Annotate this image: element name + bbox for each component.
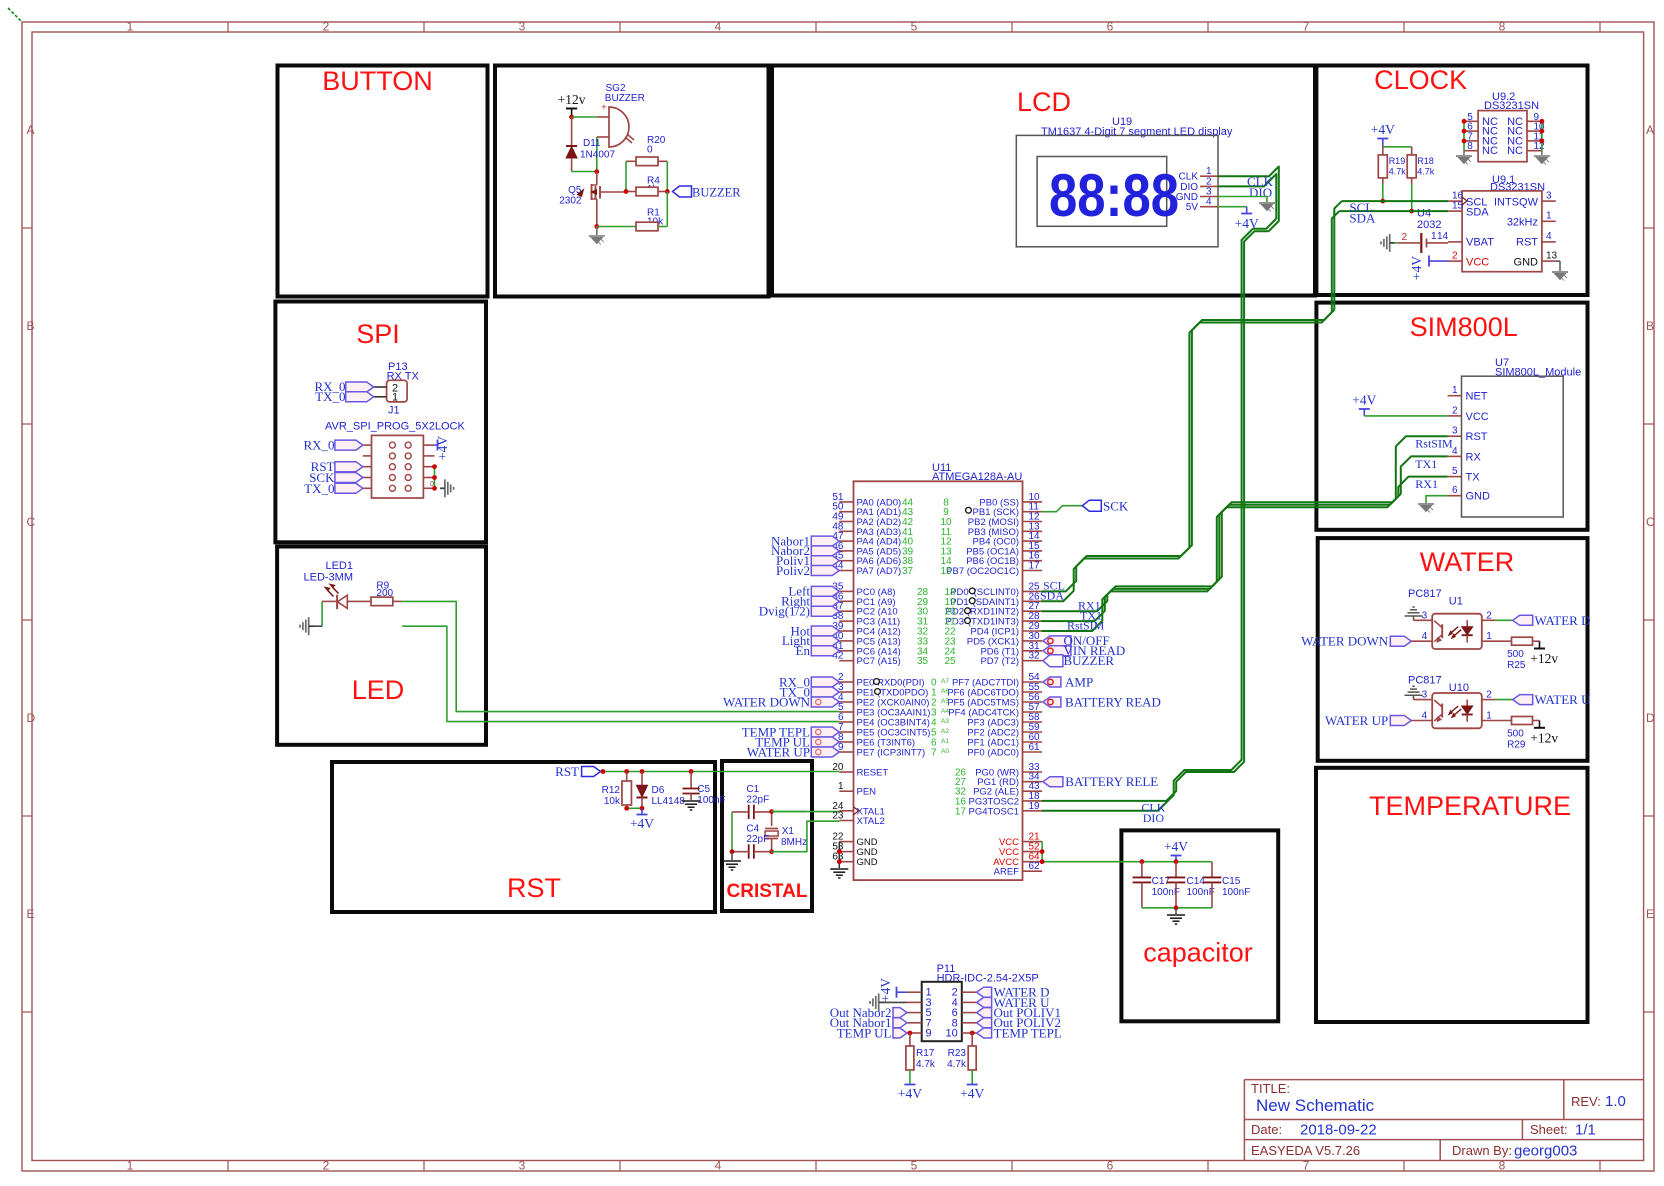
svg-text:19: 19 <box>1029 801 1041 812</box>
svg-text:2032: 2032 <box>1417 219 1441 231</box>
svg-text:500: 500 <box>1507 729 1524 740</box>
wire SDA in clock <box>1339 210 1448 212</box>
svg-text:PEN: PEN <box>857 787 877 798</box>
svg-text:georg003: georg003 <box>1514 1143 1577 1160</box>
svg-text:BUZZER: BUZZER <box>605 93 645 104</box>
optocoupler U10 PC817 <box>1432 693 1482 728</box>
svg-text:+4V: +4V <box>898 1086 922 1101</box>
net flag Left (MCU left) <box>811 586 839 596</box>
svg-text:+4V: +4V <box>435 436 450 460</box>
svg-text:SDA: SDA <box>1466 207 1489 219</box>
svg-text:LED: LED <box>352 675 405 705</box>
node source junction <box>594 224 599 229</box>
svg-text:WATER UP: WATER UP <box>1325 713 1388 728</box>
svg-text:E: E <box>27 907 35 921</box>
svg-text:0: 0 <box>430 481 434 488</box>
net flag SCK (J1) <box>335 473 363 483</box>
ground (MCU) <box>830 868 848 870</box>
svg-text:D6: D6 <box>652 785 665 796</box>
MCU pin 35 PC0 (A8) <box>839 590 853 592</box>
ground (P11) <box>869 1001 871 1004</box>
svg-text:CRISTAL: CRISTAL <box>727 881 808 902</box>
MCU pin 27 PD2 (RXD1INT2) <box>1023 610 1043 612</box>
svg-text:XTAL2: XTAL2 <box>857 816 885 827</box>
svg-text:U1: U1 <box>1449 596 1463 608</box>
MCU pin 24 XTAL1 <box>839 810 853 812</box>
net flag Right (MCU left) <box>811 596 839 606</box>
svg-text:R17: R17 <box>916 1048 935 1059</box>
MCU pin 55 PF6 (ADC6TDO) <box>1023 691 1043 693</box>
MCU pin 58 PF3 (ADC3) <box>1023 721 1043 723</box>
MCU pin 25 PD0 (SCLINT0) <box>1023 590 1043 592</box>
net flag ON/OFF <box>1043 636 1071 646</box>
ground (U9.2 right) <box>1541 151 1543 155</box>
wire capacitor bottom rail <box>1142 907 1212 909</box>
net flag WATER D <box>1513 615 1533 625</box>
wire J1 gnd bus <box>434 467 436 489</box>
MCU pin 16 PB6 (OC1B) <box>1023 560 1043 562</box>
svg-text:E: E <box>1646 907 1654 921</box>
wire LCD GND <box>1218 197 1267 203</box>
resistor R23 4.7k <box>971 1033 973 1046</box>
svg-text:RST: RST <box>1466 431 1488 443</box>
wire +4V to VCC <box>1364 415 1447 417</box>
net flag WATER U <box>1513 695 1533 705</box>
wire R12-D6 rail <box>627 807 642 809</box>
svg-text:5: 5 <box>911 20 918 34</box>
svg-text:62: 62 <box>1029 861 1041 872</box>
svg-text:1: 1 <box>1452 385 1458 396</box>
node C14 top <box>1174 859 1179 864</box>
MCU pin 8 PE6 (T3INT6) <box>839 741 853 743</box>
svg-text:+4V: +4V <box>960 1086 984 1101</box>
svg-text:RstSIM: RstSIM <box>1067 618 1105 632</box>
ground (buzzer) <box>596 227 598 236</box>
svg-text:VCC: VCC <box>1466 257 1489 269</box>
net flag Hot (MCU left) <box>811 626 839 636</box>
svg-text:BUZZER: BUZZER <box>1064 653 1115 668</box>
LED box <box>277 547 486 745</box>
svg-text:PC817: PC817 <box>1408 675 1442 687</box>
svg-text:A0: A0 <box>941 748 949 755</box>
svg-text:Dvig(1/2): Dvig(1/2) <box>759 604 810 619</box>
svg-text:LL4148: LL4148 <box>652 796 686 807</box>
svg-text:25: 25 <box>944 656 956 667</box>
resistor R19 4.7k <box>1378 155 1387 178</box>
svg-text:2: 2 <box>323 20 330 34</box>
svg-text:TEMPERATURE: TEMPERATURE <box>1369 791 1571 821</box>
net flag TEMP UL (MCU left) <box>811 737 839 747</box>
MCU pin 21 VCC <box>1023 841 1043 843</box>
svg-text:4.7k: 4.7k <box>916 1059 936 1070</box>
net flag RST (J1) <box>335 462 363 472</box>
svg-text:7: 7 <box>931 748 937 759</box>
svg-text:2: 2 <box>1452 405 1458 416</box>
MCU pin 3 PE1 (TXD0PDO) <box>839 691 853 693</box>
MCU body <box>854 481 1023 880</box>
svg-text:1/1: 1/1 <box>1575 1122 1596 1139</box>
MCU pin 29 PD4 (ICP1) <box>1023 630 1043 632</box>
MCU pin 46 PA5 (AD5) <box>839 550 853 552</box>
wire VCC bus <box>1041 842 1043 862</box>
svg-text:SDA: SDA <box>1040 589 1064 603</box>
svg-text:1N4007: 1N4007 <box>580 150 615 161</box>
svg-text:B: B <box>27 319 35 333</box>
MCU pin 18 PG3TOSC2 <box>1023 800 1043 802</box>
svg-text:A1: A1 <box>941 738 949 745</box>
svg-text:Drawn By:: Drawn By: <box>1452 1143 1512 1158</box>
svg-text:PB7 (OC2OC1C): PB7 (OC2OC1C) <box>946 566 1019 577</box>
net flag SCK (MCU) <box>1042 506 1082 512</box>
svg-text:INTSQW: INTSQW <box>1494 197 1539 209</box>
svg-text:PG4TOSC1: PG4TOSC1 <box>968 806 1019 817</box>
svg-text:+4V: +4V <box>878 978 893 1002</box>
MCU pin 59 PF2 (ADC2) <box>1023 731 1043 733</box>
svg-text:X1: X1 <box>782 826 795 837</box>
svg-text:Date:: Date: <box>1251 1122 1282 1137</box>
svg-text:4: 4 <box>1546 231 1552 242</box>
wire xtal bottom to XTAL2 pin <box>772 821 840 852</box>
MCU pin 47 PA4 (AD4) <box>839 540 853 542</box>
svg-text:A7: A7 <box>941 678 949 685</box>
svg-text:8: 8 <box>1499 1159 1506 1173</box>
MCU pin 52 VCC <box>1023 851 1043 853</box>
MCU pin 64 AVCC <box>1023 861 1043 863</box>
svg-text:4: 4 <box>715 1159 722 1173</box>
svg-text:R23: R23 <box>948 1048 967 1059</box>
net flag WATER DOWN (MCU left) <box>811 697 839 707</box>
MCU pin 10 PB0 (SS) <box>1023 501 1043 503</box>
svg-text:12: 12 <box>1534 141 1546 152</box>
svg-text:32: 32 <box>1029 651 1041 662</box>
MCU pin 26 PD1 (SDAINT1) <box>1023 600 1043 602</box>
svg-text:TEMP UL: TEMP UL <box>837 1025 892 1040</box>
svg-text:WATER DOWN: WATER DOWN <box>723 694 811 709</box>
MCU pin 44 PA7 (AD7) <box>839 570 853 572</box>
MCU pin 49 PA2 (AD2) <box>839 521 853 523</box>
wire xtal to XTAL1 pin <box>772 811 840 813</box>
MCU pin 54 PF7 (ADC7TDI) <box>1023 681 1043 683</box>
svg-text:NC: NC <box>1482 145 1498 157</box>
resistor R17 4.7k <box>909 1033 911 1046</box>
svg-text:WATER: WATER <box>1420 547 1515 577</box>
LCD box <box>772 66 1315 296</box>
net flag AMP <box>1043 677 1061 687</box>
svg-text:4: 4 <box>715 20 722 34</box>
wire LCD DIO <box>1042 174 1277 811</box>
svg-text:4.7k: 4.7k <box>947 1059 967 1070</box>
svg-text:5V: 5V <box>1186 202 1199 213</box>
U7 pin 2 VCC <box>1448 415 1462 417</box>
MCU pin 50 PA1 (AD1) <box>839 511 853 513</box>
svg-text:Sheet:: Sheet: <box>1530 1122 1568 1137</box>
svg-text:TX_0: TX_0 <box>315 389 345 404</box>
svg-text:100nF: 100nF <box>1222 887 1250 898</box>
svg-text:NC: NC <box>1507 145 1523 157</box>
P11 pin 4 <box>962 1001 977 1003</box>
net flag WATER U (P11) <box>977 997 992 1007</box>
MCU pins 22/53/63 GND <box>839 841 853 843</box>
svg-text:RESET: RESET <box>857 768 889 779</box>
P11 pin 6 <box>962 1012 977 1014</box>
svg-text:8: 8 <box>1499 20 1506 34</box>
svg-text:TEMP TEPL: TEMP TEPL <box>994 1025 1062 1040</box>
net flag VIN READ <box>1043 646 1071 656</box>
wire R20 right leg <box>666 161 668 191</box>
ground (U1) <box>1405 607 1423 616</box>
ground (led) <box>299 625 301 628</box>
net flag RST (rst block) <box>582 767 601 777</box>
MCU pin 12 PB2 (MOSI) <box>1023 521 1043 523</box>
U1 pin2 to WATER D <box>1482 619 1495 621</box>
net flag WATER D (P11) <box>977 987 992 997</box>
buzzer section box <box>495 66 769 297</box>
net flag WATER UP (MCU left) <box>811 747 839 757</box>
MCU pin 39 PC4 (A12) <box>839 630 853 632</box>
svg-text:R12: R12 <box>602 785 621 796</box>
svg-text:PA7 (AD7): PA7 (AD7) <box>857 566 902 577</box>
svg-text:7: 7 <box>1303 20 1310 34</box>
P11 pin 2 <box>962 991 977 993</box>
svg-text:WATER U: WATER U <box>1535 692 1592 707</box>
wire +12v to buzzer <box>572 116 597 118</box>
svg-text:AMP: AMP <box>1065 674 1093 689</box>
svg-text:10: 10 <box>946 1028 958 1040</box>
power +12v (R25) <box>1533 640 1540 642</box>
svg-text:J1: J1 <box>388 405 400 417</box>
capacitor box <box>1121 830 1278 1021</box>
svg-text:CLOCK: CLOCK <box>1374 65 1467 95</box>
P11 pin 8 <box>962 1022 977 1024</box>
svg-text:SDA: SDA <box>1349 211 1376 226</box>
node R23 junction <box>970 1031 975 1036</box>
svg-text:15: 15 <box>1452 201 1464 212</box>
svg-text:17: 17 <box>955 806 967 817</box>
svg-text:1: 1 <box>392 392 398 404</box>
power +4V (R23) <box>971 1070 973 1085</box>
LCD module outline <box>1016 135 1218 246</box>
net flag BATTERY READ <box>1043 697 1061 707</box>
MCU pin 56 PF5 (ADC5TMS) <box>1023 701 1043 703</box>
wire MCU gnd bus <box>838 842 840 868</box>
svg-text:D11: D11 <box>583 138 601 149</box>
net flag Poliv2 (MCU left) <box>811 566 839 576</box>
svg-text:NET: NET <box>1466 391 1488 403</box>
svg-text:RX1: RX1 <box>1415 477 1438 491</box>
svg-text:+4V: +4V <box>630 816 654 831</box>
MCU pin 48 PA3 (AD3) <box>839 530 853 532</box>
wire AVCC rail <box>1042 861 1212 863</box>
MCU pin 2 PE0 RXD0(PDI) <box>839 681 853 683</box>
svg-text:+12v: +12v <box>1530 651 1558 666</box>
ground (U9.1 GND pin) <box>1556 260 1560 262</box>
svg-text:37: 37 <box>902 566 914 577</box>
svg-text:C14: C14 <box>1187 876 1206 887</box>
net flag Out POLIV1 <box>977 1008 992 1018</box>
svg-text:1: 1 <box>127 20 134 34</box>
svg-text:D: D <box>1646 711 1655 725</box>
MCU pin 17 PB7 (OC2OC1C) <box>1023 570 1043 572</box>
svg-text:+12v: +12v <box>1530 731 1558 746</box>
net flag Nabor1 (MCU left) <box>811 536 839 546</box>
MCU pin 33 PG0 (WR) <box>1023 771 1043 773</box>
svg-text:AREF: AREF <box>994 867 1020 878</box>
svg-text:23: 23 <box>832 811 844 822</box>
wire battery gnd <box>1395 242 1398 244</box>
svg-text:22pF: 22pF <box>746 834 769 845</box>
wire TX1 route <box>1042 477 1448 621</box>
svg-text:R29: R29 <box>1507 740 1526 751</box>
wire U9.2 right NC bus <box>1541 121 1543 150</box>
svg-text:WATER DOWN: WATER DOWN <box>1301 634 1389 649</box>
svg-text:C1: C1 <box>746 784 759 795</box>
MCU pin 43 PG2 (ALE) <box>1023 790 1043 792</box>
svg-text:RstSIM: RstSIM <box>1415 437 1453 451</box>
wire pullup rail <box>1383 146 1412 148</box>
wire R19 to SCL <box>1382 184 1384 201</box>
ground (U9.2 left) <box>1463 151 1465 155</box>
ground (capacitor block) <box>1175 908 1177 914</box>
net flag Out POLIV2 <box>977 1018 992 1028</box>
svg-text:9: 9 <box>926 1028 932 1040</box>
MCU pin 42 PC7 (A15) <box>839 660 853 662</box>
svg-text:1: 1 <box>838 781 844 792</box>
svg-text:8MHz: 8MHz <box>781 837 807 848</box>
wire LCD 5V <box>1218 206 1247 208</box>
svg-text:+4V: +4V <box>1352 393 1376 408</box>
MCU pin 23 XTAL2 <box>839 820 853 822</box>
svg-text:RST: RST <box>555 764 579 779</box>
svg-text:A5: A5 <box>941 698 949 705</box>
svg-text:VBAT: VBAT <box>1466 237 1494 249</box>
resistor R25 500 <box>1482 640 1512 642</box>
MCU pin 60 PF1 (ADC1) <box>1023 741 1043 743</box>
svg-text:3: 3 <box>1452 426 1458 437</box>
U1 pin3 gnd <box>1414 619 1433 621</box>
P11 pin 3 <box>907 1001 922 1003</box>
svg-text:4: 4 <box>1206 197 1212 208</box>
svg-text:+12v: +12v <box>558 92 586 107</box>
U7 pin 1 NET <box>1448 395 1462 397</box>
svg-text:14: 14 <box>1437 231 1449 242</box>
svg-text:WATER D: WATER D <box>1535 613 1591 628</box>
svg-text:LED1: LED1 <box>325 560 353 572</box>
svg-text:GND: GND <box>1514 257 1539 269</box>
svg-text:AVR_SPI_PROG_5X2LOCK: AVR_SPI_PROG_5X2LOCK <box>325 421 465 433</box>
MCU pin 36 PC1 (A9) <box>839 600 853 602</box>
MCU pin 37 PC2 (A10 <box>839 610 853 612</box>
node cap gnd junction <box>1174 905 1179 910</box>
svg-text:C4: C4 <box>746 824 759 835</box>
svg-text:New Schematic: New Schematic <box>1256 1096 1375 1115</box>
MCU pin 13 PB3 (MISO) <box>1023 530 1043 532</box>
svg-text:8: 8 <box>1467 141 1473 152</box>
svg-text:13: 13 <box>1546 251 1558 262</box>
svg-text:RST: RST <box>507 873 561 903</box>
wire SDA route <box>1042 211 1340 601</box>
svg-text:TX_0: TX_0 <box>304 481 334 496</box>
svg-text:TM1637 4-Digit 7 segment LED d: TM1637 4-Digit 7 segment LED display <box>1041 126 1233 138</box>
wire R20 left leg <box>625 161 627 191</box>
ground (cristal) <box>731 852 733 860</box>
MCU pin 5 PE3 (OC3AAIN1) <box>839 711 853 713</box>
net flag RX_0 (J1) <box>335 440 363 450</box>
svg-text:RX: RX <box>1466 451 1482 463</box>
power +12v (R29) <box>1533 720 1540 722</box>
node xtal bottom <box>769 849 774 854</box>
MCU pin 20 RESET <box>839 771 853 773</box>
MCU pin 40 PC5 (A13) <box>839 640 853 642</box>
WATER box <box>1318 538 1588 761</box>
svg-text:3: 3 <box>1546 191 1552 202</box>
LCD pins 1-4 <box>1200 175 1218 177</box>
row ruler ticks <box>22 227 32 229</box>
LCD display window <box>1037 157 1167 227</box>
resistor R18 4.7k <box>1407 155 1416 178</box>
MCU pin 62 AREF <box>1023 870 1043 872</box>
svg-text:7: 7 <box>1303 1159 1310 1173</box>
U10 pin3 gnd <box>1414 699 1433 701</box>
MCU pin 61 PF0 (ADC0) <box>1023 751 1043 753</box>
svg-text:5: 5 <box>911 1159 918 1173</box>
svg-text:TX: TX <box>1466 472 1481 484</box>
net flag Out Nabor1 <box>893 1018 907 1028</box>
svg-text:2018-09-22: 2018-09-22 <box>1300 1122 1377 1139</box>
svg-text:2: 2 <box>323 1159 330 1173</box>
wire SCL in clock <box>1342 200 1448 202</box>
svg-text:BUZZER: BUZZER <box>692 185 741 199</box>
wire GND (sim) <box>1426 496 1448 503</box>
wire xtal to XTAL1 pin <box>772 811 807 813</box>
svg-text:35: 35 <box>917 656 929 667</box>
wire U9.2 left NC bus <box>1463 121 1465 150</box>
U10 pin2 to WATER U <box>1482 699 1495 701</box>
ground (U10) <box>1405 686 1423 695</box>
node buzzer net junction <box>665 189 670 194</box>
P11 pin 1 <box>907 991 922 993</box>
svg-text:20: 20 <box>832 762 844 773</box>
wire R9 to MCU PE3 <box>402 601 840 711</box>
P11 pin 5 <box>907 1012 922 1014</box>
svg-text:17: 17 <box>1029 561 1041 572</box>
svg-text:R25: R25 <box>1507 660 1526 671</box>
title block lines <box>1244 1079 1643 1081</box>
node R17 junction <box>908 1031 913 1036</box>
svg-text:2: 2 <box>1402 232 1408 243</box>
column ruler ticks <box>227 22 229 32</box>
net flag WATER UP (water) <box>1390 716 1411 726</box>
svg-text:LCD: LCD <box>1017 87 1071 117</box>
power +4V (J1, rotated) <box>437 440 439 451</box>
SIM800L box <box>1316 303 1587 530</box>
CLOCK box <box>1316 66 1587 296</box>
svg-text:GND: GND <box>857 857 878 868</box>
MCU pin 9 PE7 (ICP3INT7) <box>839 751 853 753</box>
svg-text:6: 6 <box>1107 1159 1114 1173</box>
U7 pin 5 TX <box>1448 476 1462 478</box>
net flag WATER DOWN (water) <box>1390 636 1411 646</box>
MCU pin 19 PG4TOSC1 <box>1023 810 1043 812</box>
power +4V (rst) <box>641 808 643 814</box>
origin marker <box>8 8 22 22</box>
svg-text:1.0: 1.0 <box>1605 1093 1626 1110</box>
svg-text:61: 61 <box>1029 742 1041 753</box>
net flag Poliv1 (MCU left) <box>811 556 839 566</box>
ground (rst C5) <box>682 800 700 802</box>
power +4V (P11, rotated) <box>896 987 898 998</box>
svg-text:88:88: 88:88 <box>1049 162 1179 229</box>
node gate junction <box>624 189 629 194</box>
